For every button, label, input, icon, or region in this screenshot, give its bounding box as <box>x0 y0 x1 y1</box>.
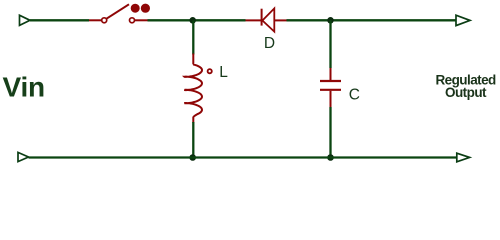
diode right lead (red) <box>275 19 287 21</box>
output arrow top-right <box>456 15 470 25</box>
switch indicator dot 1 <box>131 4 140 13</box>
bottom rail wire <box>29 156 457 158</box>
capacitor bottom wire green <box>329 107 331 158</box>
wire switch to node A <box>148 19 246 21</box>
input arrow top-left <box>20 15 31 25</box>
inductor polarity dot <box>208 69 212 73</box>
svg-text:D: D <box>264 35 275 52</box>
capacitor top lead red <box>330 68 332 80</box>
inductor top wire <box>192 20 194 54</box>
svg-text:C: C <box>349 87 360 104</box>
capacitor bottom lead red <box>330 91 332 107</box>
switch indicator dot 2 <box>141 4 150 13</box>
inductor L coil <box>184 54 202 124</box>
switch throw circle <box>130 18 135 23</box>
inductor bottom wire <box>192 122 194 158</box>
svg-text:L: L <box>219 64 228 81</box>
svg-text:Vin: Vin <box>3 71 45 102</box>
switch blade <box>107 4 130 18</box>
junction node B <box>327 17 334 24</box>
switch S left lead (red) <box>89 19 102 21</box>
bottom rail arrow right <box>457 153 470 162</box>
junction node A <box>189 17 196 24</box>
bottom rail arrow left <box>18 152 29 161</box>
wire top-left green <box>30 19 89 21</box>
wire diode to node B and right edge <box>287 19 457 21</box>
capacitor top wire green <box>329 20 331 68</box>
switch pole circle <box>102 18 107 23</box>
capacitor C bottom plate <box>320 89 341 91</box>
diode left lead (red) <box>246 19 262 21</box>
junction node bottom-right <box>327 154 334 161</box>
junction node bottom-left <box>189 154 196 161</box>
diode D triangle <box>262 8 274 31</box>
switch right lead (red) <box>135 19 148 21</box>
diode D cathode bar <box>261 9 263 26</box>
svg-text:Output: Output <box>445 85 487 100</box>
capacitor C top plate <box>320 80 341 82</box>
